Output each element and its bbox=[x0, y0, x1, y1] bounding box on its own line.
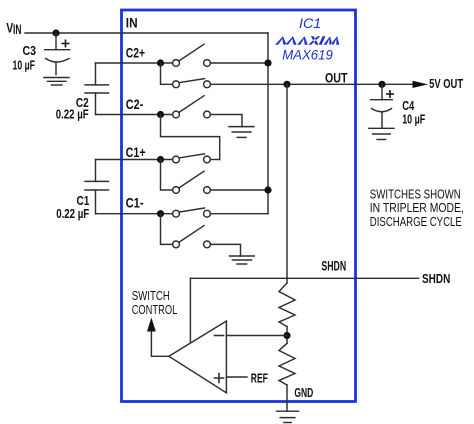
wire C1+ to pin bbox=[96, 159, 173, 161]
node dot OUT bbox=[283, 81, 290, 88]
wire REF to non-inverting input bbox=[226, 376, 247, 378]
node VIN junction dot bbox=[52, 29, 59, 36]
wire R1 to node bbox=[286, 327, 288, 344]
node VIN input wire bbox=[25, 32, 268, 34]
wire IN rail vertical bbox=[267, 33, 269, 214]
label SWITCH CONTROL bbox=[132, 289, 178, 317]
wire C2- to C1+ series link bbox=[161, 115, 220, 160]
switch S4 C1+ series (closed) bbox=[173, 154, 220, 163]
resistor R2 lower bbox=[279, 343, 295, 385]
switch S5 C1+ to IN (open) bbox=[161, 160, 269, 194]
svg-text:0.22 µF: 0.22 µF bbox=[56, 206, 89, 221]
note text switches shown bbox=[370, 187, 464, 229]
svg-text:IN: IN bbox=[126, 14, 138, 30]
svg-text:C3: C3 bbox=[23, 43, 37, 58]
node dot C4 bbox=[378, 81, 385, 88]
svg-text:10 µF: 10 µF bbox=[13, 58, 36, 73]
wire SHDN bbox=[190, 277, 418, 279]
node dot divider bbox=[283, 332, 290, 339]
node dot IN rail/S5 bbox=[264, 186, 271, 193]
wire inverting input bbox=[226, 335, 287, 337]
arrow switch control bbox=[147, 318, 156, 332]
svg-text:OUT: OUT bbox=[325, 70, 348, 86]
capacitor C4 bbox=[371, 84, 393, 127]
op-amp comparator U1 bbox=[169, 321, 227, 393]
node dot C2- bbox=[157, 111, 164, 118]
label VIN bbox=[6, 19, 21, 37]
svg-text:C1+: C1+ bbox=[126, 144, 146, 160]
svg-text:SWITCH: SWITCH bbox=[132, 289, 170, 303]
switch S2 C2+ to OUT (closed) bbox=[161, 63, 356, 88]
switch S3 C2- to GND (open) bbox=[173, 96, 242, 127]
capacitor C2 bbox=[85, 63, 109, 115]
wire comparator output bbox=[151, 331, 169, 356]
label C3 plus bbox=[62, 40, 70, 48]
node dot C1- bbox=[157, 210, 164, 217]
svg-text:C2-: C2- bbox=[126, 96, 144, 112]
label C4 plus bbox=[386, 90, 394, 98]
wire C2+ to pin bbox=[96, 62, 173, 64]
svg-text:5V OUT: 5V OUT bbox=[429, 76, 463, 91]
svg-text:0.22 µF: 0.22 µF bbox=[56, 106, 89, 121]
ground C3 bbox=[44, 78, 69, 86]
svg-text:IN TRIPLER MODE,: IN TRIPLER MODE, bbox=[370, 201, 464, 215]
arrow 5V OUT bbox=[413, 81, 429, 88]
logo MAXIM bbox=[275, 36, 341, 45]
resistor R1 upper bbox=[279, 283, 295, 327]
svg-text:SWITCHES SHOWN: SWITCHES SHOWN bbox=[370, 187, 461, 201]
svg-text:MAX619: MAX619 bbox=[282, 47, 333, 63]
plus sign non-inverting bbox=[215, 374, 224, 383]
svg-text:GND: GND bbox=[294, 385, 313, 400]
capacitor C1 bbox=[85, 160, 109, 214]
ground S7 bbox=[230, 256, 255, 264]
switch S1 C2+ to IN (open) bbox=[173, 44, 268, 66]
ground main GND bbox=[277, 411, 299, 422]
wire C1- to pin bbox=[96, 213, 173, 215]
capacitor C3 bbox=[45, 33, 70, 75]
svg-text:SHDN: SHDN bbox=[422, 271, 450, 286]
node dot C1+ bbox=[157, 156, 164, 163]
svg-text:IN: IN bbox=[13, 21, 22, 37]
wire OUT rail vertical bbox=[286, 84, 288, 283]
switch S7 C1- to GND (open) bbox=[161, 214, 241, 256]
wire SHDN drop to comparator bbox=[189, 278, 191, 343]
wire OUT to 5V OUT bbox=[355, 83, 413, 85]
wire C2- to pin bbox=[96, 114, 173, 116]
svg-text:SHDN: SHDN bbox=[321, 258, 346, 274]
ground S3 bbox=[229, 127, 254, 138]
svg-text:CONTROL: CONTROL bbox=[132, 303, 178, 317]
switch S6 C1- to IN (closed) bbox=[173, 208, 268, 217]
svg-text:REF: REF bbox=[251, 370, 268, 385]
wire R2 to ground bbox=[286, 385, 288, 411]
node dot IN rail/S1 bbox=[264, 59, 271, 66]
minus sign inverting bbox=[215, 335, 224, 337]
svg-text:DISCHARGE CYCLE: DISCHARGE CYCLE bbox=[370, 215, 462, 229]
svg-text:10 µF: 10 µF bbox=[402, 112, 425, 127]
ground C4 bbox=[369, 128, 394, 139]
svg-text:C2+: C2+ bbox=[126, 45, 145, 61]
svg-text:C1-: C1- bbox=[126, 194, 144, 210]
svg-text:IC1: IC1 bbox=[299, 16, 321, 31]
IC1 box outline bbox=[122, 10, 356, 402]
node dot C2+ bbox=[157, 59, 164, 66]
